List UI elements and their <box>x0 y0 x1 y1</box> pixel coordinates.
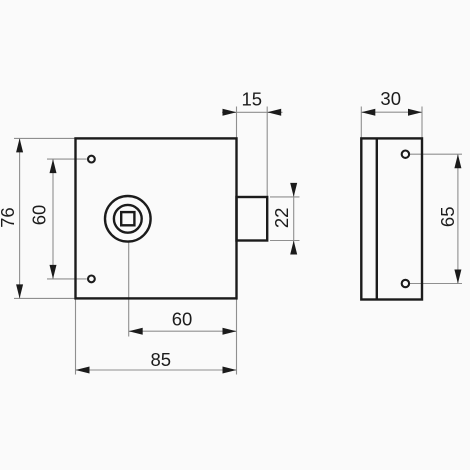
svg-text:15: 15 <box>242 89 263 110</box>
svg-text:60: 60 <box>29 205 50 226</box>
svg-text:85: 85 <box>151 349 172 370</box>
svg-text:30: 30 <box>380 88 401 109</box>
svg-text:65: 65 <box>437 207 458 228</box>
svg-text:76: 76 <box>0 207 18 228</box>
svg-text:22: 22 <box>271 208 292 229</box>
svg-text:60: 60 <box>172 309 193 330</box>
